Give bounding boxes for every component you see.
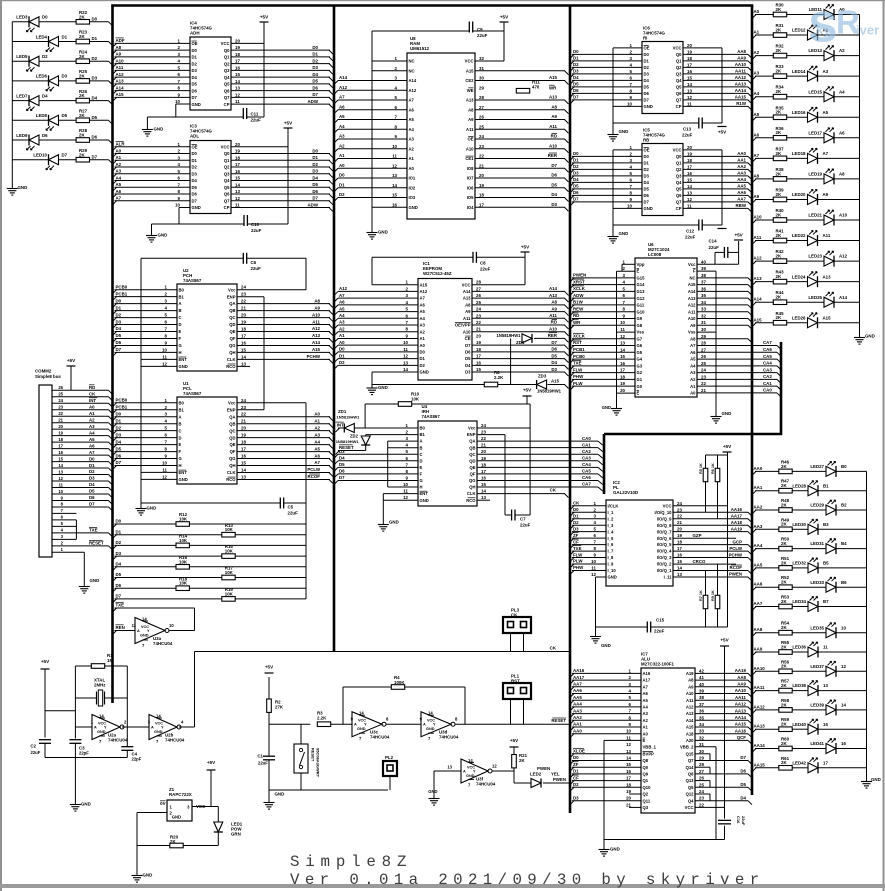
svg-text:D4: D4 [339, 456, 345, 461]
svg-text:13: 13 [677, 572, 682, 577]
LED14 [792, 66, 829, 82]
svg-text:FLW: FLW [573, 367, 583, 372]
svg-text:CLK: CLK [227, 357, 236, 362]
svg-text:A11: A11 [312, 319, 320, 324]
wire U2 power [141, 258, 306, 505]
svg-text:A9: A9 [551, 306, 557, 311]
svg-text:CP: CP [676, 206, 682, 211]
svg-text:12: 12 [58, 476, 63, 481]
svg-text:Q3: Q3 [224, 68, 230, 73]
svg-text:A6: A6 [420, 302, 426, 307]
svg-text:B1W: B1W [573, 300, 584, 305]
svg-text:10: 10 [627, 101, 632, 106]
svg-text:27: 27 [479, 105, 484, 110]
connector Z1 RAPC722X [160, 787, 206, 821]
svg-text:XRST: XRST [573, 279, 585, 284]
diode ZD3 [537, 374, 562, 394]
capacitor C16 [718, 816, 746, 826]
svg-text:40: 40 [701, 259, 706, 264]
svg-text:RD: RD [573, 313, 579, 318]
svg-text:A2: A2 [690, 377, 696, 382]
svg-text:A12: A12 [420, 289, 428, 294]
svg-text:CA7: CA7 [763, 340, 772, 345]
svg-text:GND: GND [610, 847, 620, 852]
resistor R48 [779, 498, 792, 512]
svg-text:A6: A6 [89, 443, 95, 448]
svg-text:A3: A3 [409, 137, 415, 142]
node AA15 [754, 762, 766, 767]
svg-text:D1: D1 [420, 356, 426, 361]
svg-text:D5: D5 [192, 185, 198, 190]
svg-text:2K: 2K [776, 192, 782, 197]
svg-text:CP: CP [224, 102, 230, 107]
svg-text:23: 23 [241, 405, 246, 410]
svg-text:22uF: 22uF [31, 750, 41, 755]
svg-text:A14: A14 [312, 340, 321, 345]
svg-text:LED16: LED16 [792, 110, 806, 115]
svg-text:AA4: AA4 [754, 543, 763, 548]
svg-text:20: 20 [620, 388, 625, 393]
svg-text:2K: 2K [79, 74, 85, 79]
svg-text:D3: D3 [573, 171, 579, 176]
svg-text:74AS867: 74AS867 [183, 391, 202, 396]
svg-text:12: 12 [620, 334, 625, 339]
svg-text:Q12: Q12 [686, 792, 695, 797]
svg-text:A2: A2 [409, 146, 415, 151]
svg-text:11: 11 [162, 468, 167, 473]
wire row D6 left [12, 140, 112, 144]
svg-text:CA1: CA1 [763, 381, 772, 386]
wire IC2 CRCO [673, 559, 736, 564]
svg-text:2K: 2K [776, 151, 782, 156]
LED40 [792, 719, 828, 735]
svg-text:12: 12 [162, 474, 167, 479]
svg-text:C10: C10 [251, 222, 260, 227]
svg-text:A11: A11 [688, 309, 696, 314]
svg-text:I/O/Q_7: I/O/Q_7 [657, 529, 672, 534]
svg-text:AA16: AA16 [573, 668, 585, 673]
svg-text:16: 16 [620, 361, 625, 366]
svg-text:D5: D5 [89, 489, 95, 494]
svg-text:D4: D4 [573, 75, 579, 80]
svg-text:H: H [179, 463, 182, 468]
svg-text:22uF: 22uF [682, 133, 693, 138]
resistor R32 [773, 44, 786, 58]
svg-text:Q6: Q6 [688, 772, 694, 777]
svg-text:D5: D5 [644, 187, 650, 192]
svg-text:A1: A1 [339, 153, 345, 158]
svg-text:A15: A15 [754, 317, 763, 322]
svg-text:CA5: CA5 [763, 354, 772, 359]
svg-text:Q3: Q3 [224, 171, 230, 176]
wire CK [195, 646, 571, 652]
node AA10 [754, 666, 766, 671]
svg-text:13: 13 [687, 88, 692, 93]
svg-text:CA6: CA6 [763, 347, 772, 352]
svg-text:B0: B0 [841, 464, 847, 469]
svg-text:20: 20 [235, 38, 240, 43]
svg-text:39: 39 [701, 266, 706, 271]
resistor R23 [76, 30, 98, 44]
svg-text:G12: G12 [637, 296, 646, 301]
wire row AA0 right [752, 471, 867, 475]
svg-text:A9: A9 [116, 52, 122, 57]
svg-text:D2: D2 [116, 540, 122, 545]
svg-text:G: G [179, 343, 182, 348]
svg-text:D5: D5 [339, 462, 345, 467]
svg-text:CE: CE [465, 336, 471, 341]
svg-text:RCOF: RCOF [308, 474, 321, 479]
svg-text:Q15: Q15 [686, 751, 695, 756]
svg-text:XCLK: XCLK [573, 286, 586, 291]
svg-text:A6: A6 [690, 350, 696, 355]
wire Z1 vcc [192, 770, 218, 807]
LED29 [810, 500, 847, 516]
svg-text:D2: D2 [116, 312, 122, 317]
resistor R33 [773, 64, 786, 78]
svg-text:AA7: AA7 [573, 682, 582, 687]
wire row AA1 right [752, 491, 867, 495]
svg-text:I/O/Q_2: I/O/Q_2 [657, 562, 672, 567]
svg-text:ENT: ENT [179, 470, 188, 475]
svg-text:ADF: ADF [116, 38, 125, 43]
svg-text:D4: D4 [465, 363, 471, 368]
svg-text:I_2: I_2 [608, 516, 614, 521]
svg-text:18: 18 [241, 440, 246, 445]
svg-text:Q4: Q4 [688, 798, 694, 803]
svg-text:A13: A13 [466, 98, 474, 103]
+5V IC7 [720, 638, 730, 647]
svg-text:B1: B1 [179, 294, 185, 299]
svg-text:A8: A8 [314, 298, 320, 303]
wire left LED common [11, 22, 13, 185]
svg-text:22: 22 [476, 320, 481, 325]
svg-text:A7: A7 [314, 460, 320, 465]
svg-text:C9: C9 [477, 27, 483, 32]
resistor R19 [116, 587, 236, 601]
svg-text:2K: 2K [776, 48, 782, 53]
svg-text:GND: GND [97, 730, 106, 734]
svg-text:D4: D4 [312, 72, 318, 77]
svg-text:AA3: AA3 [573, 708, 582, 713]
svg-text:A8: A8 [690, 336, 696, 341]
svg-text:ENP: ENP [227, 294, 236, 299]
wire row AA10 right [752, 671, 867, 675]
svg-text:RD: RD [551, 320, 557, 325]
svg-text:ADW: ADW [308, 202, 319, 207]
wire IC5 power [613, 150, 722, 233]
capacitor C6 [243, 253, 261, 271]
svg-text:10: 10 [620, 320, 625, 325]
svg-text:LED6: LED6 [36, 74, 48, 79]
svg-text:GND: GND [409, 205, 418, 210]
svg-text:ZF: ZF [573, 533, 579, 538]
svg-text:14: 14 [241, 354, 246, 359]
svg-text:QA: QA [469, 439, 475, 444]
svg-text:19: 19 [687, 151, 692, 156]
svg-text:LED23: LED23 [808, 254, 822, 259]
svg-text:GND: GND [378, 230, 388, 235]
IC U-IC4 74HC574G ADH [113, 21, 334, 111]
svg-text:32: 32 [699, 735, 704, 740]
svg-text:CLK: CLK [467, 491, 476, 496]
svg-text:C1: C1 [257, 754, 263, 759]
svg-text:AA3: AA3 [737, 171, 746, 176]
svg-text:A5: A5 [823, 110, 829, 115]
svg-text:C16: C16 [736, 816, 741, 824]
svg-text:2K: 2K [781, 741, 787, 746]
svg-text:22: 22 [58, 411, 63, 416]
svg-text:D3: D3 [551, 367, 557, 372]
resistor R34 [773, 85, 786, 99]
LED39 [810, 700, 846, 716]
svg-text:42: 42 [699, 668, 704, 673]
svg-text:D3: D3 [116, 551, 122, 556]
svg-text:A11: A11 [754, 235, 762, 240]
svg-text:D6: D6 [740, 769, 746, 774]
svg-text:26: 26 [476, 293, 481, 298]
svg-text:D7: D7 [116, 347, 122, 352]
svg-text:D6: D6 [42, 133, 48, 138]
svg-text:14: 14 [392, 183, 397, 188]
svg-text:E: E [637, 269, 640, 274]
svg-text:12: 12 [687, 197, 692, 202]
svg-text:D0: D0 [116, 298, 122, 303]
resistor R36 [773, 126, 786, 140]
bus line horizontal top [111, 4, 753, 7]
svg-text:D3: D3 [573, 526, 579, 531]
svg-text:TXE: TXE [89, 528, 98, 533]
svg-text:A2: A2 [116, 162, 122, 167]
svg-text:15: 15 [620, 354, 625, 359]
svg-text:G11: G11 [637, 303, 645, 308]
svg-text:2K: 2K [776, 212, 782, 217]
svg-text:A5: A5 [643, 698, 649, 703]
svg-text:D6: D6 [89, 495, 95, 500]
svg-text:D7: D7 [89, 502, 95, 507]
svg-text:AA1: AA1 [754, 485, 763, 490]
svg-text:I/O/Q_9: I/O/Q_9 [657, 516, 672, 521]
svg-text:C: C [179, 428, 182, 433]
wire row A9 right [752, 199, 860, 203]
resistor R13 [116, 523, 236, 537]
svg-text:10: 10 [841, 625, 846, 630]
svg-text:A18: A18 [686, 731, 694, 736]
svg-text:D5: D5 [740, 782, 746, 787]
svg-text:29: 29 [701, 334, 706, 339]
svg-text:D1: D1 [573, 513, 579, 518]
svg-text:11: 11 [162, 354, 167, 359]
svg-text:A4: A4 [89, 430, 95, 435]
svg-text:G5: G5 [637, 350, 643, 355]
svg-text:Vss: Vss [637, 330, 645, 335]
LED13 [808, 46, 845, 62]
svg-text:A10: A10 [839, 213, 848, 218]
svg-text:22: 22 [241, 412, 246, 417]
resistor R58 [779, 698, 792, 712]
wire IC2 power [596, 506, 728, 633]
svg-text:RB: RB [643, 138, 649, 143]
ground Z1 [132, 872, 153, 882]
svg-text:A3: A3 [754, 71, 760, 76]
svg-text:ZD3: ZD3 [538, 374, 547, 379]
svg-text:A3: A3 [690, 370, 696, 375]
svg-text:GND: GND [865, 334, 875, 339]
svg-text:32: 32 [479, 56, 484, 61]
node AA0 [754, 466, 763, 471]
svg-text:CK: CK [550, 488, 557, 493]
svg-text:D7: D7 [116, 594, 122, 599]
svg-text:+5V: +5V [723, 444, 732, 449]
svg-text:NC: NC [409, 59, 415, 64]
svg-text:20: 20 [687, 43, 692, 48]
LED36 [792, 642, 828, 658]
svg-text:1M: 1M [107, 658, 113, 663]
svg-text:14: 14 [687, 184, 692, 189]
resistor R6 [706, 455, 728, 519]
svg-text:IO7: IO7 [467, 176, 474, 181]
svg-text:16: 16 [687, 69, 692, 74]
resistor R20 [137, 834, 218, 848]
svg-text:I/O/Q_3: I/O/Q_3 [657, 555, 672, 560]
ground IC7 [599, 846, 620, 856]
svg-text:D0: D0 [573, 507, 579, 512]
svg-text:D1: D1 [116, 418, 122, 423]
svg-text:OE: OE [467, 137, 473, 142]
svg-text:A8: A8 [465, 302, 471, 307]
svg-text:D3: D3 [192, 68, 198, 73]
svg-text:CE2: CE2 [465, 78, 474, 83]
svg-text:D0: D0 [644, 52, 650, 57]
svg-text:D5: D5 [551, 353, 557, 358]
svg-text:A15: A15 [466, 68, 474, 73]
svg-text:D6: D6 [192, 88, 198, 93]
svg-text:12: 12 [403, 495, 408, 500]
svg-text:Q1: Q1 [224, 158, 230, 163]
svg-text:RAPC722X: RAPC722X [169, 792, 192, 797]
svg-text:A12: A12 [339, 85, 348, 90]
svg-text:18: 18 [479, 193, 484, 198]
svg-text:B1: B1 [420, 432, 426, 437]
svg-text:13: 13 [481, 495, 486, 500]
svg-text:A16: A16 [643, 671, 651, 676]
svg-text:Vcc: Vcc [228, 287, 236, 292]
diode ZD4 [497, 333, 558, 345]
LED16 [792, 107, 829, 123]
svg-text:IO6: IO6 [467, 185, 474, 190]
svg-text:QB: QB [229, 308, 235, 313]
IC U6 M27C1024 LC008 [570, 242, 752, 397]
svg-text:+5V: +5V [284, 121, 293, 126]
crystal XTAL 2MHz [75, 678, 127, 707]
node A8 [754, 173, 760, 178]
svg-text:D3: D3 [573, 795, 579, 800]
svg-text:2K: 2K [781, 522, 787, 527]
svg-text:AA14: AA14 [754, 743, 766, 748]
svg-text:QH: QH [229, 350, 235, 355]
svg-text:A0: A0 [690, 391, 696, 396]
svg-text:GND: GND [192, 102, 201, 107]
svg-text:Q2: Q2 [224, 61, 230, 66]
svg-text:AA6: AA6 [754, 582, 763, 587]
svg-text:11: 11 [235, 203, 240, 208]
+5V U6 [734, 233, 744, 241]
svg-text:A15: A15 [688, 282, 696, 287]
svg-text:VCC: VCC [673, 46, 682, 51]
svg-text:XCLK: XCLK [573, 333, 586, 338]
svg-text:D7: D7 [644, 98, 650, 103]
wire U4 misc pins [388, 441, 418, 487]
svg-text:11: 11 [59, 482, 64, 487]
resistor R49 [779, 517, 792, 531]
svg-text:14: 14 [841, 703, 846, 708]
svg-text:Q5: Q5 [676, 85, 682, 90]
svg-text:G8: G8 [637, 323, 643, 328]
svg-text:28: 28 [476, 280, 481, 285]
svg-text:10K: 10K [179, 517, 188, 522]
svg-text:14: 14 [142, 617, 147, 622]
resistor R26 [76, 89, 98, 103]
svg-text:CA3: CA3 [763, 367, 772, 372]
svg-text:Simple8Z: Simple8Z [290, 853, 412, 871]
svg-text:D3: D3 [192, 171, 198, 176]
svg-text:LED41: LED41 [810, 741, 824, 746]
svg-text:10: 10 [392, 144, 397, 149]
svg-text:29: 29 [479, 85, 484, 90]
LED2 PWEN YEL [530, 766, 570, 788]
svg-text:Q5: Q5 [688, 785, 694, 790]
inverter U3a [132, 617, 175, 649]
svg-text:A15: A15 [116, 92, 125, 97]
svg-text:+5V: +5V [720, 638, 729, 643]
connector PL3 [503, 608, 531, 634]
svg-text:Q1: Q1 [643, 778, 649, 783]
svg-text:D4: D4 [92, 95, 98, 100]
svg-text:A1: A1 [420, 336, 426, 341]
node A4 [754, 91, 760, 96]
svg-text:QB: QB [229, 421, 235, 426]
svg-text:B2: B2 [841, 503, 847, 508]
svg-text:A7: A7 [339, 95, 345, 100]
svg-text:D0: D0 [192, 48, 198, 53]
svg-text:GND: GND [158, 233, 168, 238]
svg-text:YEL: YEL [551, 772, 560, 777]
svg-text:D5: D5 [573, 184, 579, 189]
svg-text:A2: A2 [839, 48, 845, 53]
svg-text:A9: A9 [823, 192, 829, 197]
svg-text:10: 10 [162, 461, 167, 466]
svg-text:14: 14 [99, 714, 104, 719]
svg-text:A4: A4 [690, 363, 696, 368]
resistor R12 [116, 512, 190, 526]
svg-text:D4: D4 [192, 75, 198, 80]
svg-text:D5: D5 [551, 182, 557, 187]
svg-text:A: A [463, 770, 466, 774]
wire osc right vert [126, 666, 128, 727]
svg-text:PL2: PL2 [385, 755, 394, 760]
LED26 [792, 313, 831, 329]
svg-text:QF: QF [470, 472, 476, 477]
svg-text:74AS867: 74AS867 [183, 278, 202, 283]
bus line vertical col4 LED bus [751, 6, 754, 796]
svg-text:A12: A12 [839, 254, 848, 259]
svg-text:D4: D4 [116, 439, 122, 444]
LED24 [792, 272, 831, 288]
svg-text:2K: 2K [79, 34, 85, 39]
bus CA right riser [780, 342, 783, 435]
svg-text:D3: D3 [312, 65, 318, 70]
svg-text:38: 38 [699, 695, 704, 700]
